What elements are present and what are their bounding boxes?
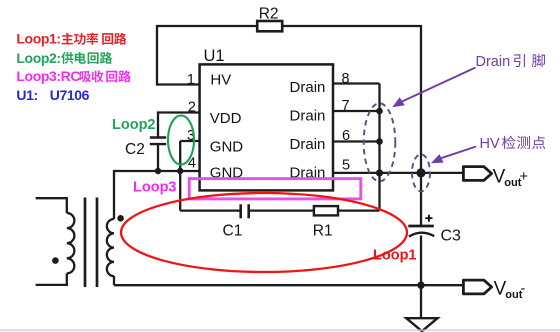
connector Vout- [463, 280, 491, 294]
HV sense dashed ellipse [412, 154, 430, 191]
wire pin7 [333, 110, 380, 112]
svg-text:HV: HV [210, 72, 231, 89]
wire C2 bottom to GND net [157, 145, 159, 172]
node HV sense point [416, 168, 425, 177]
transformer core [85, 198, 97, 288]
svg-text:Loop3:RC: Loop3:RC [16, 68, 80, 84]
drain pins dashed ellipse [364, 103, 396, 181]
capacitor C1 [241, 204, 249, 218]
legend Loop2 line [16, 50, 112, 66]
wire C3 to bottom rail [420, 236, 422, 286]
node drain pin6 [376, 138, 383, 145]
legend U1 line [16, 87, 89, 103]
svg-text:+: + [520, 169, 528, 185]
legend Loop1 line [16, 31, 126, 47]
annotation HV sense point [480, 136, 546, 152]
loop3 highlight rectangle [189, 179, 361, 199]
svg-text:Drain: Drain [290, 79, 326, 96]
svg-text:Drain: Drain [476, 54, 511, 70]
svg-text:C3: C3 [441, 227, 462, 244]
annotation Drain pins [476, 54, 546, 70]
svg-text:GND: GND [210, 139, 244, 156]
svg-text:5: 5 [342, 158, 350, 174]
svg-text:Loop1: Loop1 [373, 248, 417, 264]
capacitor C3 polarized [408, 226, 434, 237]
svg-text:VDD: VDD [210, 110, 242, 127]
arrow to drain pins [392, 68, 475, 108]
node drain pin7 [376, 108, 383, 115]
C3 plus polarity mark [425, 215, 432, 222]
svg-text:Drain: Drain [290, 108, 326, 125]
arrow to HV sense point [431, 147, 476, 164]
wire top loop from pin1 up through R2 to HV sense column [157, 26, 421, 172]
svg-text:Loop3: Loop3 [133, 179, 177, 195]
resistor R1 [314, 206, 338, 215]
svg-text:-: - [521, 281, 526, 297]
primary phase dot [52, 257, 59, 264]
bottom edge shading [0, 329, 560, 331]
loop2 highlight ellipse [168, 116, 194, 165]
wire pin2 VDD to C2 [158, 113, 200, 138]
node C2/GND junction [155, 168, 161, 174]
svg-text:Loop1:: Loop1: [16, 31, 60, 47]
connector Vout+ [463, 167, 491, 181]
wire bottom rail to Vout- [114, 284, 463, 286]
label Vout- [494, 278, 526, 301]
svg-text:R1: R1 [313, 222, 333, 239]
wire RC snubber bottom [180, 173, 379, 211]
wire HV column to C3 [420, 173, 422, 225]
wire pin3 GND down to snubber [180, 141, 199, 211]
wire pin6 [333, 140, 380, 142]
svg-text:U1: U1 [204, 47, 225, 65]
wire pin8 [333, 82, 380, 84]
svg-text:HV: HV [480, 136, 500, 152]
wire ground stem [420, 285, 422, 318]
ground symbol [406, 318, 437, 331]
svg-text:Loop2:: Loop2: [16, 50, 60, 66]
svg-text:U1:: U1: [16, 87, 37, 103]
IC U1 (U7106) body [200, 64, 333, 190]
transformer T1 primary winding [36, 198, 75, 285]
wire pin4 GND to transformer [114, 171, 200, 219]
secondary phase dot [117, 215, 124, 222]
svg-text:Loop2: Loop2 [112, 117, 156, 133]
node snubber/GND junction [177, 168, 183, 174]
loop1 highlight ellipse [121, 193, 407, 272]
svg-text:Drain: Drain [290, 136, 326, 153]
node bottom rail / ground junction [417, 282, 424, 289]
svg-text:R2: R2 [259, 5, 279, 22]
wire pin5 to Vout+ [333, 172, 463, 174]
transformer secondary winding [107, 219, 114, 285]
node drain pin5 [376, 169, 383, 176]
svg-text:C1: C1 [223, 222, 243, 239]
svg-text:U7106: U7106 [50, 87, 90, 103]
label Vout+ [493, 166, 528, 189]
svg-text:1: 1 [187, 72, 195, 88]
wire pin1 [157, 83, 200, 85]
capacitor C2 [150, 138, 166, 145]
legend Loop3 line [16, 68, 130, 84]
svg-text:C2: C2 [125, 141, 145, 158]
resistor R2 [257, 21, 282, 31]
wire drain bus [378, 84, 380, 173]
